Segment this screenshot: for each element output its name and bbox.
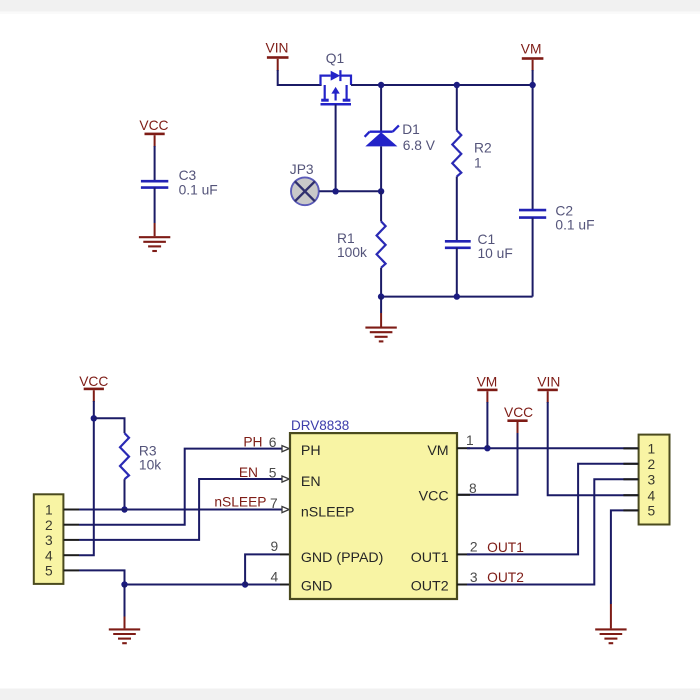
IC U1 DRV8838 box <box>290 433 457 599</box>
label EN <box>239 465 258 480</box>
wire OUT1 net <box>467 464 639 555</box>
JP2 pin 2 <box>623 457 655 472</box>
svg-text:EN: EN <box>301 474 321 490</box>
JP1 pin 3 <box>45 533 79 548</box>
IC pin name EN <box>301 474 321 490</box>
IC pin name VCC <box>419 489 449 505</box>
jumper JP3 <box>291 177 319 205</box>
label C2 <box>555 203 573 218</box>
svg-text:R1: R1 <box>337 231 355 246</box>
label R3 <box>139 444 157 459</box>
value 10k <box>139 458 161 473</box>
wire C3 to ground <box>154 188 156 237</box>
pin number 2 <box>470 540 478 555</box>
svg-text:5: 5 <box>45 564 53 579</box>
connector JP2 (right) <box>639 435 670 525</box>
svg-text:0.1 uF: 0.1 uF <box>179 183 218 198</box>
svg-text:1: 1 <box>466 433 474 448</box>
JP2 pin 1 <box>623 442 655 457</box>
label C1 <box>478 232 496 247</box>
capacitor C1 <box>445 241 471 248</box>
wire OUT2 net <box>467 479 639 584</box>
bottom rail wire <box>381 296 532 298</box>
JP1 pin 5 <box>45 564 79 579</box>
junction node R3/nSLEEP <box>121 506 127 512</box>
IC pin 2 stub <box>457 553 470 555</box>
svg-text:1: 1 <box>45 503 53 518</box>
svg-text:3: 3 <box>45 533 53 548</box>
ground (bottom right) <box>595 629 626 643</box>
svg-text:0.1 uF: 0.1 uF <box>555 217 594 232</box>
svg-text:JP3: JP3 <box>290 162 314 177</box>
wire nSLEEP net <box>79 509 285 511</box>
svg-text:2: 2 <box>45 518 53 533</box>
svg-text:VIN: VIN <box>537 375 560 390</box>
ground (C3) <box>139 237 170 251</box>
wire Q1 drain to VM corner <box>351 84 533 86</box>
input arrow PH <box>282 446 289 452</box>
IC pin name OUT2 <box>411 578 449 594</box>
IC pin 8 stub <box>457 494 470 496</box>
junction node D1 top <box>378 82 384 88</box>
supply VIN (bottom right) <box>537 375 560 403</box>
svg-text:C3: C3 <box>179 168 197 183</box>
svg-text:3: 3 <box>648 472 656 487</box>
label OUT2 <box>487 570 524 585</box>
svg-text:R3: R3 <box>139 444 157 459</box>
capacitor C3 <box>141 181 168 187</box>
JP2 pin 3 <box>623 472 655 487</box>
svg-text:5: 5 <box>648 504 656 519</box>
svg-text:R2: R2 <box>474 141 492 156</box>
supply VCC (bottom left) <box>79 374 108 402</box>
pin number 1 <box>466 433 474 448</box>
junction node VCC/R3 <box>91 415 97 421</box>
svg-text:3: 3 <box>470 570 478 585</box>
svg-text:GND (PPAD): GND (PPAD) <box>301 550 384 566</box>
svg-text:C1: C1 <box>478 232 496 247</box>
supply VM (bottom) <box>477 375 498 403</box>
svg-text:VCC: VCC <box>139 118 168 133</box>
pin number 4 <box>271 569 279 584</box>
wire VM row <box>467 447 639 449</box>
pin number 8 <box>469 481 477 496</box>
wire GND to ground (left) <box>124 585 126 629</box>
transistor Q1 <box>321 70 352 104</box>
svg-text:9: 9 <box>271 539 279 554</box>
svg-text:8: 8 <box>469 481 477 496</box>
svg-text:Q1: Q1 <box>326 51 344 66</box>
value 0.1 uF <box>179 183 218 198</box>
svg-text:EN: EN <box>239 465 258 480</box>
svg-text:nSLEEP: nSLEEP <box>301 504 355 520</box>
svg-text:GND: GND <box>301 578 333 594</box>
svg-text:2: 2 <box>648 457 656 472</box>
value 10 uF <box>478 246 513 261</box>
IC pin name GND <box>301 578 333 594</box>
wire VM stub to rail <box>532 70 534 86</box>
svg-text:VM: VM <box>477 375 498 390</box>
label OUT1 <box>487 540 524 555</box>
pin number 3 <box>470 570 478 585</box>
pin number 7 <box>270 496 278 511</box>
label Q1 <box>326 51 344 66</box>
resistor R3 <box>120 433 129 509</box>
svg-text:6: 6 <box>269 435 277 450</box>
IC pin 1 stub <box>457 447 470 449</box>
IC pin name GND (PPAD) <box>301 550 384 566</box>
svg-text:4: 4 <box>648 488 656 503</box>
junction node GND corner <box>121 581 127 587</box>
svg-text:D1: D1 <box>402 122 420 137</box>
svg-text:1: 1 <box>474 155 482 170</box>
JP1 pin 1 <box>45 503 79 518</box>
resistor R1 <box>377 191 386 296</box>
junction node C1 bottom <box>454 293 460 299</box>
svg-text:4: 4 <box>271 569 279 584</box>
value 100k <box>337 245 367 260</box>
pin number 9 <box>271 539 279 554</box>
supply VCC (top left) <box>139 118 168 147</box>
value 0.1 uF <box>555 217 594 232</box>
wire VCC down to pin 4 <box>79 401 94 555</box>
svg-text:4: 4 <box>45 548 53 563</box>
wire VM supply to row <box>486 402 488 448</box>
junction node R2 top <box>454 82 460 88</box>
svg-text:6.8 V: 6.8 V <box>403 138 436 153</box>
svg-text:10k: 10k <box>139 458 161 473</box>
wire GND(PPAD) pin 9 <box>245 554 290 584</box>
wire C1 bottom <box>456 248 458 297</box>
IC pin 3 stub <box>457 584 470 586</box>
svg-text:VCC: VCC <box>419 489 449 505</box>
label R1 <box>337 231 355 246</box>
svg-text:VM: VM <box>427 443 448 459</box>
wire Q1 gate lead <box>335 104 337 191</box>
connector JP1 (left) <box>34 494 64 584</box>
junction node GND/pin9 <box>242 581 248 587</box>
svg-text:DRV8838: DRV8838 <box>291 418 349 433</box>
svg-text:100k: 100k <box>337 245 367 260</box>
value 6.8 V <box>403 138 436 153</box>
junction node R1 bottom <box>378 293 384 299</box>
wire VCC to R3 top <box>94 418 125 433</box>
junction node VM/C2 <box>529 82 535 88</box>
JP2 pin 4 <box>623 488 655 503</box>
svg-text:1: 1 <box>648 442 656 457</box>
label C3 <box>179 168 197 183</box>
svg-text:2: 2 <box>470 540 478 555</box>
svg-text:OUT2: OUT2 <box>411 578 449 594</box>
junction node gate/JP3 <box>332 188 338 194</box>
wire VCC to C3 <box>154 146 156 181</box>
svg-text:PH: PH <box>301 443 321 459</box>
label nSLEEP <box>214 494 266 509</box>
input arrow EN <box>282 476 289 482</box>
label DRV8838 <box>291 418 349 433</box>
value 1 <box>474 155 482 170</box>
svg-text:PH: PH <box>243 435 262 450</box>
pin number 6 <box>269 435 277 450</box>
svg-text:7: 7 <box>270 496 278 511</box>
svg-text:VCC: VCC <box>79 374 108 389</box>
wire GND net from pin 5 <box>79 570 245 584</box>
label JP3 <box>290 162 314 177</box>
junction node D1/R1 <box>378 188 384 194</box>
IC pin name VM <box>427 443 448 459</box>
JP1 pin 4 <box>45 548 79 563</box>
supply VM (top) <box>521 42 544 71</box>
ground (bottom left) <box>109 629 140 643</box>
svg-text:nSLEEP: nSLEEP <box>214 494 266 509</box>
wire VCC to IC pin 8 <box>457 433 518 495</box>
IC pin name nSLEEP <box>301 504 355 520</box>
svg-text:VM: VM <box>521 42 542 57</box>
wire GND to IC pin 4 <box>245 584 290 586</box>
svg-text:OUT1: OUT1 <box>487 540 524 555</box>
svg-text:OUT1: OUT1 <box>411 550 449 566</box>
svg-text:VIN: VIN <box>266 41 289 56</box>
svg-text:5: 5 <box>269 465 277 480</box>
wire EN net <box>79 479 285 540</box>
IC pin name OUT1 <box>411 550 449 566</box>
supply VCC (bottom right) <box>504 405 533 434</box>
svg-text:VCC: VCC <box>504 405 533 420</box>
supply VIN <box>266 41 289 71</box>
wire PH net <box>79 449 285 525</box>
svg-text:C2: C2 <box>555 203 573 218</box>
wire connector pin 5 to ground <box>611 510 639 628</box>
label D1 <box>402 122 420 137</box>
pin number 5 <box>269 465 277 480</box>
junction node VM <box>484 445 490 451</box>
JP2 pin 5 <box>623 504 655 519</box>
ground (top circuit) <box>365 297 396 342</box>
capacitor C2 <box>519 85 546 297</box>
resistor R2 <box>452 85 461 240</box>
wire VIN to Q1 source <box>278 70 322 85</box>
svg-text:OUT2: OUT2 <box>487 570 524 585</box>
diode D1 (zener) <box>365 85 399 191</box>
wire JP3 to D1 column <box>319 190 381 192</box>
label PH <box>243 435 262 450</box>
JP1 pin 2 <box>45 518 79 533</box>
label R2 <box>474 141 492 156</box>
IC pin name PH <box>301 443 321 459</box>
svg-text:10 uF: 10 uF <box>478 246 513 261</box>
wire VIN to connector pin 4 <box>548 402 639 495</box>
input arrow nSLEEP <box>282 507 289 513</box>
